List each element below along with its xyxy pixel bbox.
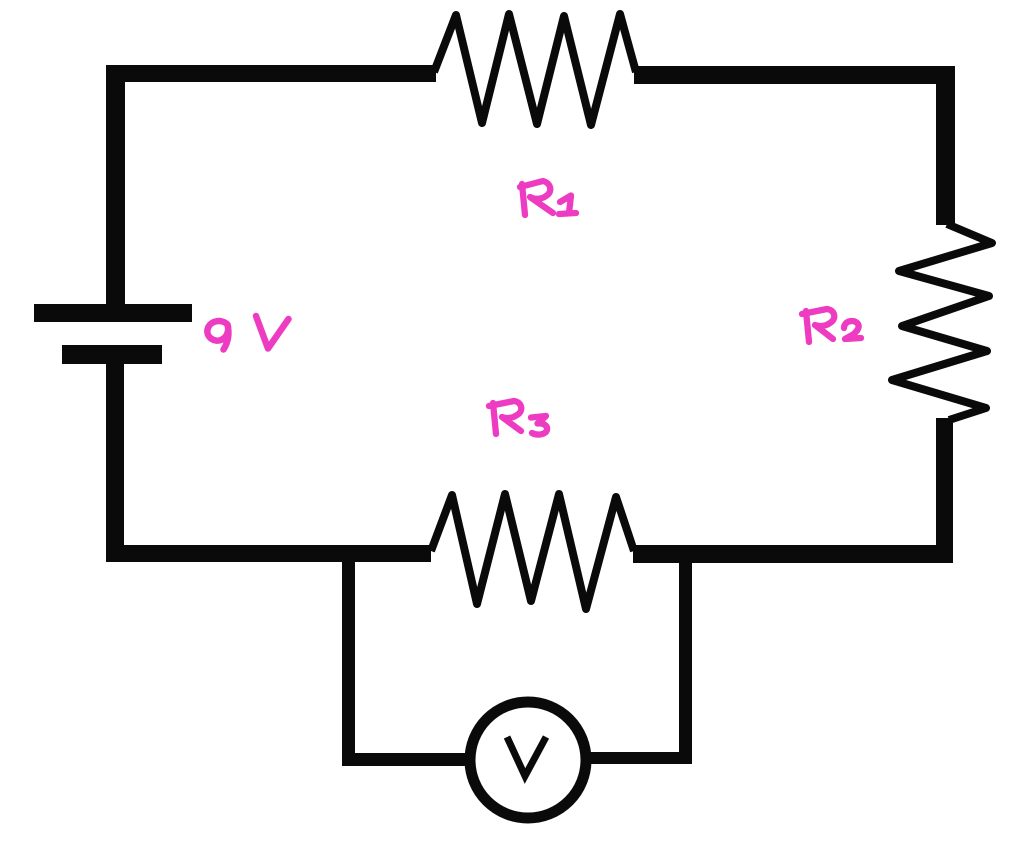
- wire: voltmeter branch left leg down from bottom wire: [342, 553, 355, 766]
- resistor R1 zigzag: [434, 14, 636, 125]
- resistor R3 zigzag: [431, 494, 634, 609]
- voltmeter V letter marking: [507, 737, 546, 776]
- wire: left vertical from top-left corner down to battery +: [106, 65, 125, 305]
- label R1: [520, 181, 576, 215]
- wire: voltmeter branch right leg down from bottom wire junction: [679, 553, 692, 764]
- label R3: [489, 401, 547, 435]
- wire: voltmeter branch left horizontal to voltmeter: [342, 753, 466, 766]
- wire: bottom horizontal right segment from corner to R3: [633, 545, 952, 563]
- wire: top horizontal left segment to R1: [106, 65, 436, 82]
- label R2: [802, 309, 861, 342]
- battery B1 negative plate (short): [62, 345, 162, 364]
- voltmeter V (meter body circle): [470, 702, 586, 818]
- wire: right vertical lower from R2 to bottom-right corner: [936, 418, 953, 563]
- wire: top horizontal right segment from R1 to top-right corner: [634, 66, 955, 84]
- wire: voltmeter branch right horizontal from voltmeter: [590, 752, 692, 764]
- resistor R2 zigzag: [892, 224, 992, 420]
- wire: right vertical upper from top-right corner to R2: [936, 66, 955, 225]
- wire: bottom horizontal left segment from R3 to bottom-left corner: [106, 545, 431, 562]
- wire: left vertical from battery - down to bottom-left corner: [106, 364, 124, 562]
- battery B1 positive plate (long): [34, 304, 192, 322]
- label 9 V value of battery: [207, 316, 288, 350]
